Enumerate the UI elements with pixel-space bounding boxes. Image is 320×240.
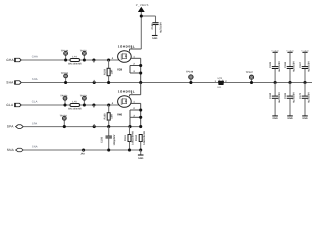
node SPA stub junction — [93, 124, 96, 128]
node SHA junction C165 — [274, 81, 277, 84]
resistor R160 (gate-source V40) — [104, 103, 114, 126]
svg-text:4u7/100V: 4u7/100V — [308, 61, 311, 72]
testpoint TP153 — [80, 94, 88, 100]
power supply symbol P_VBUS at C167 — [301, 49, 309, 52]
svg-text:TP149: TP149 — [61, 49, 69, 52]
testpoint TP151 — [80, 49, 88, 55]
svg-text:1GHD09L: 1GHD09L — [118, 89, 135, 93]
power supply symbol P_VBUS — [136, 3, 149, 12]
svg-text:TP147: TP147 — [246, 71, 254, 74]
svg-text:10k/100mW: 10k/100mW — [143, 131, 146, 145]
wire TP151 stem — [83, 56, 86, 62]
ground GND under SNA — [138, 150, 144, 160]
capacitor C170 (SHA to GND) — [299, 83, 311, 116]
connector SNA — [7, 148, 24, 152]
svg-text:4u7/100V: 4u7/100V — [293, 92, 296, 103]
svg-text:R162: R162 — [135, 134, 138, 141]
wire V40 pin2 stub — [130, 107, 142, 111]
wire V39 pin1 source — [131, 55, 141, 82]
testpoint TP150 — [61, 72, 69, 78]
jumper JP2 — [80, 148, 85, 155]
wire TP154 stem — [63, 120, 66, 128]
node SPA left shunt junction — [128, 125, 131, 128]
capacitor C166 (VBUS to SHA) — [284, 52, 296, 82]
svg-text:GHA: GHA — [32, 56, 38, 59]
svg-text:C156: C156 — [101, 136, 104, 143]
wire TP150 stem — [64, 78, 67, 84]
svg-text:L?2: L?2 — [218, 77, 223, 80]
connector GLA — [6, 103, 21, 107]
svg-text:C160: C160 — [151, 23, 154, 30]
wire TP153 stem — [83, 100, 86, 106]
wire V40 pin3 stub — [130, 110, 142, 119]
svg-text:4u7/100V: 4u7/100V — [278, 61, 281, 72]
capacitor C169 (SHA to GND) — [284, 83, 296, 116]
connector SPA — [7, 125, 24, 129]
ground GND under C169 — [287, 116, 293, 120]
wire V40 pin1 source — [131, 101, 141, 127]
node SHA R159 junction — [107, 81, 110, 84]
svg-text:C169: C169 — [284, 92, 287, 99]
ground GND under C168 — [272, 116, 278, 120]
svg-text:GLA: GLA — [32, 101, 38, 104]
svg-text:4u7/100V: 4u7/100V — [278, 92, 281, 103]
resistor R159 (gate-source V39) — [103, 58, 113, 82]
testpoint TP152 — [60, 94, 68, 100]
wire V40 pin5 drain to SHA — [130, 83, 141, 97]
wire V39 pin5 drain to VBUS — [130, 46, 142, 51]
svg-text:GND: GND — [152, 37, 158, 40]
power supply symbol P_VBUS at C165 — [271, 49, 279, 52]
wire net GLA — [21, 101, 121, 105]
node SHA stub junction — [93, 80, 96, 84]
capacitor C165 (VBUS to SHA) — [269, 52, 281, 82]
svg-text:GHA: GHA — [6, 58, 14, 62]
svg-text:C167: C167 — [299, 61, 302, 68]
svg-text:GND: GND — [287, 117, 293, 120]
transistor V39 1GHD09L — [112, 44, 135, 71]
svg-text:TP150: TP150 — [61, 72, 69, 75]
wire TP152 stem — [63, 100, 66, 106]
svg-text:V40: V40 — [117, 112, 123, 116]
wire VBUS branch to C160 — [141, 16, 155, 22]
capacitor C156 — [101, 125, 116, 150]
testpoint TP148 — [186, 70, 194, 79]
svg-text:SNA: SNA — [32, 146, 38, 149]
svg-text:L?5: L?5 — [72, 101, 77, 104]
ground GND under C160 — [152, 36, 158, 41]
transistor V40 1GHD09L — [112, 89, 135, 116]
svg-text:1GHD09L: 1GHD09L — [118, 44, 135, 48]
svg-text:GLA: GLA — [6, 103, 14, 107]
svg-text:R160: R160 — [104, 113, 107, 120]
svg-text:V39: V39 — [117, 67, 123, 71]
resistor R162 — [135, 131, 146, 150]
svg-text:SPA: SPA — [7, 125, 14, 129]
svg-text:BN 100nH/5: BN 100nH/5 — [68, 107, 82, 110]
wire V40 pins to SPA — [129, 117, 131, 126]
svg-text:C166: C166 — [284, 61, 287, 68]
svg-text:BN 100nH/5: BN 100nH/5 — [68, 62, 82, 65]
svg-text:R159: R159 — [103, 68, 106, 75]
svg-text:C170: C170 — [299, 92, 302, 99]
svg-text:TP148: TP148 — [186, 70, 194, 73]
capacitor C167 (VBUS to SHA) — [299, 52, 311, 82]
svg-text:SPA: SPA — [32, 122, 38, 125]
solder jumper SJ1 — [215, 77, 228, 89]
wire net SPA — [23, 122, 141, 126]
inductor L5 ferrite bead — [68, 101, 82, 111]
svg-text:TP152: TP152 — [60, 94, 68, 97]
node GLA stub junction — [92, 103, 95, 107]
svg-text:10R: 10R — [110, 70, 113, 75]
svg-text:SHA: SHA — [32, 78, 38, 81]
capacitor C160 — [151, 22, 163, 35]
ground GND under C170 — [302, 116, 308, 120]
wire net GHA — [21, 56, 121, 60]
svg-text:JP2: JP2 — [80, 153, 85, 156]
testpoint TP149 — [61, 49, 69, 55]
wire VBUS vertical — [140, 12, 142, 49]
connector SHA — [6, 80, 21, 84]
wire V39 pin3 stub — [130, 66, 142, 75]
inductor L4 ferrite bead — [68, 56, 82, 66]
svg-text:GND: GND — [138, 157, 144, 160]
svg-text:10R: 10R — [111, 114, 114, 119]
node GHA stub junction — [92, 58, 95, 62]
svg-text:SNA: SNA — [7, 148, 15, 152]
node VBUS junction — [140, 14, 143, 17]
connector GHA — [6, 58, 21, 62]
resistor R161 — [124, 127, 135, 150]
node SNA R161 junction — [128, 148, 131, 151]
svg-text:TP151: TP151 — [80, 49, 88, 52]
svg-text:4u7/100V: 4u7/100V — [160, 22, 163, 33]
node SHA junction C166 — [288, 81, 291, 84]
svg-text:4u7/100V: 4u7/100V — [293, 61, 296, 72]
svg-text:R161: R161 — [124, 134, 127, 141]
svg-text:4u7/100V: 4u7/100V — [308, 92, 311, 103]
svg-text:GND: GND — [302, 117, 308, 120]
wire TP147 stem — [250, 79, 253, 84]
wire TP148 stem — [189, 79, 192, 84]
svg-text:TP153: TP153 — [80, 94, 88, 97]
wire net SHA bus — [21, 78, 312, 82]
testpoint TP154 — [60, 114, 68, 120]
node SPA right shunt junction — [139, 125, 142, 128]
svg-text:C165: C165 — [269, 61, 272, 68]
wire V39 pin2 stub — [130, 63, 142, 67]
capacitor C168 (SHA to GND) — [269, 83, 281, 116]
wire TP149 stem — [64, 56, 67, 62]
node SNA C156 junction — [107, 148, 110, 151]
svg-text:SHA: SHA — [6, 80, 14, 84]
node SHA half-bridge junction — [139, 81, 142, 84]
node SNA R162 junction — [139, 148, 142, 151]
power supply symbol P_VBUS at C166 — [286, 49, 294, 52]
wire net SNA — [23, 146, 141, 150]
svg-text:C168: C168 — [269, 92, 272, 99]
svg-text:TP154: TP154 — [60, 114, 68, 117]
svg-text:P_VBUS: P_VBUS — [136, 3, 149, 7]
node SHA junction C167 — [303, 81, 306, 84]
testpoint TP147 — [246, 71, 254, 80]
svg-text:GND: GND — [272, 117, 278, 120]
svg-text:L?4: L?4 — [72, 56, 77, 59]
svg-text:100p/50V: 100p/50V — [113, 134, 116, 145]
